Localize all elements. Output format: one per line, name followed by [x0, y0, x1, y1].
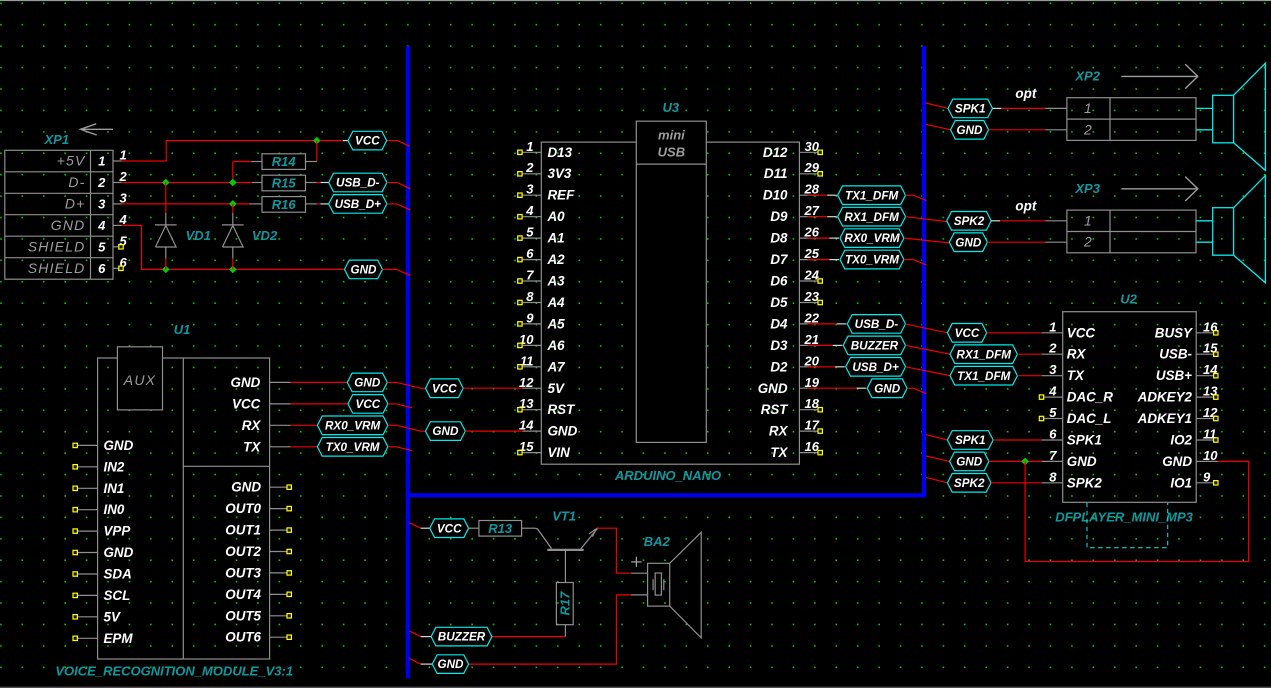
wire: TX1_DFM label to U2 pin 3 — [1017, 375, 1041, 377]
net label SPK2 (U2 pin 8) — [926, 477, 947, 482]
connector XP1 orientation arrow (left) — [81, 124, 97, 135]
svg-text:1: 1 — [1084, 212, 1093, 228]
node: junction D- / R14 — [229, 179, 237, 187]
svg-text:VT1: VT1 — [552, 509, 576, 524]
resistor R15 — [262, 175, 306, 191]
svg-text:ARDUINO_NANO: ARDUINO_NANO — [614, 468, 721, 483]
wire: bus entry of VCC into left bus — [398, 141, 410, 147]
svg-text:9: 9 — [1203, 469, 1211, 484]
svg-text:A5: A5 — [547, 316, 566, 331]
resistor R16 pin stubs — [250, 203, 263, 205]
svg-text:OUT6: OUT6 — [225, 630, 261, 645]
net label TX0_VRM (U3 pin 25) with bus entry — [808, 259, 830, 261]
wire: R15 to USB_D- label (white tail) — [317, 182, 321, 184]
IC U1 VOICE_RECOGNITION_MODULE body — [98, 358, 270, 659]
IC U3 right pin stubs — [799, 152, 817, 452]
svg-text:3: 3 — [98, 197, 106, 212]
svg-text:D-: D- — [68, 174, 85, 190]
svg-text:U2: U2 — [1120, 291, 1137, 306]
svg-text:GND: GND — [51, 217, 86, 233]
svg-text:SPK2: SPK2 — [954, 477, 985, 490]
net label GND (XP3 pin 2) — [949, 233, 987, 252]
net label SPK1 (U2 pin 6) — [926, 435, 947, 440]
svg-text:IN2: IN2 — [104, 459, 125, 474]
svg-text:GND: GND — [351, 264, 378, 277]
connector XP1 external pin numbers 1-6 — [119, 148, 128, 270]
wire: GND label across left bus to U3 VCC label — [387, 381, 396, 383]
svg-text:USB_D-: USB_D- — [336, 177, 380, 190]
IC U3 left pin stubs — [523, 152, 542, 452]
net label VCC (U3 pin 12) — [426, 379, 464, 398]
svg-text:USB: USB — [658, 145, 685, 160]
svg-text:OUT1: OUT1 — [225, 523, 261, 538]
svg-text:GND: GND — [354, 377, 381, 390]
svg-text:VIN: VIN — [548, 445, 571, 460]
svg-text:GND: GND — [1162, 454, 1192, 469]
node: junction D- / VD1 — [162, 179, 170, 187]
svg-text:D11: D11 — [764, 166, 788, 181]
svg-text:VCC: VCC — [356, 398, 381, 411]
svg-text:SCL: SCL — [104, 588, 131, 603]
svg-text:24: 24 — [804, 268, 820, 283]
svg-text:28: 28 — [804, 182, 820, 197]
net label RX0_VRM (U3 pin 26) with wire across bus to XP3 GND label — [808, 237, 830, 239]
node: junction VCC / R14 — [313, 137, 321, 145]
node: junction GND loop / U2 pin 7 — [1021, 458, 1029, 466]
svg-text:A0: A0 — [547, 209, 566, 224]
IC U2 unconnected pins DAC_R DAC_L markers — [1039, 395, 1043, 399]
svg-text:A4: A4 — [547, 295, 566, 310]
net label SPK2 (XP3 pin 1) — [947, 212, 992, 231]
net label VCC (U1) — [348, 395, 388, 414]
svg-text:4: 4 — [97, 218, 106, 233]
svg-text:GND: GND — [955, 236, 982, 249]
svg-text:19: 19 — [805, 375, 820, 390]
svg-text:29: 29 — [804, 160, 820, 175]
net label RX1_DFM (U2 pin 2) — [950, 345, 1017, 364]
net label USB_D- (U3 pin 22) with wire across bus to U2 VCC label — [808, 323, 837, 325]
net label USB_D+ — [329, 195, 387, 214]
IC U2 left pin names and numbers — [1048, 319, 1113, 490]
svg-text:8: 8 — [1049, 469, 1057, 484]
svg-text:1: 1 — [120, 148, 127, 163]
svg-text:RX1_DFM: RX1_DFM — [844, 211, 899, 224]
svg-text:2: 2 — [119, 169, 128, 184]
IC U2 right pin names and numbers — [1137, 319, 1219, 490]
svg-text:RX1_DFM: RX1_DFM — [956, 348, 1011, 361]
wire: GND label to U2 pin 7 — [989, 460, 1042, 462]
svg-text:TX0_VRM: TX0_VRM — [845, 254, 899, 267]
IC U3 unconnected left pin markers — [518, 150, 522, 455]
IC U3 mini USB sub-block — [636, 121, 706, 442]
svg-text:VCC: VCC — [232, 396, 261, 411]
svg-text:4: 4 — [1048, 384, 1057, 399]
diode VD1 (D- to GND) — [165, 183, 167, 214]
connector XP2 pin stubs — [1046, 107, 1067, 109]
wire: BA2 + pin stub — [631, 572, 648, 574]
svg-text:IO1: IO1 — [1170, 475, 1192, 490]
IC U1 right bottom pins (unconnected outputs) — [225, 480, 291, 645]
svg-text:REF: REF — [548, 188, 576, 203]
net label VCC (XP1) — [348, 131, 387, 150]
node: junction D+ / VD2 — [229, 200, 237, 208]
IC U3 left pin names and numbers — [519, 139, 578, 460]
IC U2 DFPLAYER body — [1063, 312, 1197, 503]
wire: bus entry of USB_D- into left bus — [387, 182, 397, 184]
svg-text:2: 2 — [1083, 121, 1093, 137]
svg-text:D13: D13 — [548, 145, 573, 160]
net label RX0_VRM (U1) — [317, 416, 388, 435]
wire: SPK1 label to U2 pin 6 — [993, 439, 1041, 441]
svg-text:SPK2: SPK2 — [954, 215, 985, 228]
svg-text:SPK2: SPK2 — [1067, 475, 1103, 490]
wire: R14 right terminal to VCC line — [316, 141, 318, 162]
svg-text:8: 8 — [526, 289, 534, 304]
svg-text:USB+: USB+ — [1156, 368, 1192, 383]
svg-text:GND: GND — [432, 425, 459, 438]
svg-text:AUX: AUX — [123, 372, 156, 388]
svg-text:22: 22 — [804, 310, 820, 325]
net label USB_D+ (U3 pin 20) with wire across bus to U2 TX1_DFM label — [808, 366, 836, 368]
net label GND (BA2) — [410, 659, 421, 664]
svg-text:RX: RX — [242, 418, 262, 433]
wire: U1 VCC pin to VCC label — [291, 403, 348, 405]
IC U1 left pins (unconnected inputs) — [73, 438, 134, 646]
wire: VT1 emitter to BA2 + terminal — [597, 528, 631, 573]
wire: U1 RX pin to RX0_VRM label — [291, 424, 318, 426]
wire: R17 bottom stub — [564, 625, 566, 637]
connector XP3 orientation arrow (right) — [1121, 188, 1197, 190]
wire: GND to BA2 - terminal — [469, 595, 631, 664]
svg-text:SHIELD: SHIELD — [28, 260, 86, 276]
wire: bus entry of TX0_VRM into left bus — [388, 446, 397, 448]
svg-text:9: 9 — [526, 310, 534, 325]
wire: XP1 pin4 (GND) down and right to GND label — [122, 225, 345, 269]
svg-text:mini: mini — [658, 128, 685, 143]
svg-text:1: 1 — [1084, 100, 1093, 116]
connector XP2 orientation arrow (right) — [1121, 75, 1197, 77]
svg-text:VD1: VD1 — [186, 228, 211, 243]
svg-text:GND: GND — [231, 480, 261, 495]
resistor R15 pin stubs — [252, 182, 262, 184]
svg-text:OUT0: OUT0 — [225, 501, 261, 516]
net label GND (U2 pin 7) — [926, 456, 950, 461]
bus: vertical blue bus right of U3 — [922, 46, 926, 495]
IC U3 unconnected right pin markers — [818, 150, 822, 455]
svg-text:OUT4: OUT4 — [225, 587, 261, 602]
svg-text:R14: R14 — [272, 154, 297, 169]
svg-text:IN1: IN1 — [104, 481, 125, 496]
wire: SPK2 label to U2 pin 8 — [991, 482, 1042, 484]
wire: bus entry of VCC (U1) into left bus — [388, 403, 397, 405]
IC U2 right pin stubs — [1196, 333, 1217, 483]
resistor R13 — [479, 521, 522, 537]
svg-text:5V: 5V — [104, 609, 121, 624]
svg-text:SPK1: SPK1 — [1067, 433, 1102, 448]
svg-text:TX: TX — [770, 445, 788, 460]
svg-text:R17: R17 — [557, 591, 572, 616]
wire: R14 left terminal down to D- net — [233, 161, 252, 163]
svg-text:D12: D12 — [763, 145, 788, 160]
svg-text:D3: D3 — [770, 338, 788, 353]
node: junction GND / VD2 anode — [229, 266, 237, 274]
IC U3 ARDUINO_NANO body — [541, 142, 799, 464]
diode VD2 (D+ to GND) — [232, 204, 234, 213]
svg-text:VOICE_RECOGNITION_MODULE_V3:1: VOICE_RECOGNITION_MODULE_V3:1 — [55, 664, 293, 679]
svg-text:BUZZER: BUZZER — [438, 631, 486, 644]
wire: XP1 pin3 (D+) to R16 — [122, 203, 250, 205]
svg-text:OUT2: OUT2 — [225, 544, 261, 559]
svg-text:TX: TX — [243, 439, 261, 454]
net label BUZZER (U3 pin 21) with wire across bus to U2 RX1_DFM label — [808, 344, 833, 346]
svg-text:VD2: VD2 — [252, 228, 278, 243]
svg-text:IO2: IO2 — [1170, 433, 1192, 448]
net label GND (U3 pin 19) with bus entry — [808, 387, 857, 389]
connector XP3 table outline — [1067, 210, 1196, 253]
net label USB_D- — [329, 173, 387, 192]
net label TX1_DFM (U3 pin 28) with bus entry — [808, 194, 828, 196]
svg-text:SDA: SDA — [104, 567, 132, 582]
net label VCC (R13) — [410, 523, 421, 528]
net label VCC (U2 pin 1) — [947, 324, 986, 343]
svg-text:26: 26 — [804, 225, 820, 240]
svg-text:10: 10 — [1203, 448, 1218, 463]
svg-text:USB_D+: USB_D+ — [852, 361, 899, 374]
net label TX1_DFM (U2 pin 3) — [950, 366, 1017, 385]
IC U1 AUX sub-block — [117, 347, 162, 410]
wire: BA2 - pin stub — [631, 594, 648, 596]
IC U2 left pin stubs — [1042, 333, 1063, 483]
svg-text:USB_D+: USB_D+ — [335, 198, 382, 211]
svg-text:D9: D9 — [770, 209, 788, 224]
wire: bus entry of USB_D+ into left bus — [387, 203, 397, 205]
buzzer BA2 horn — [670, 532, 702, 638]
svg-text:GND: GND — [438, 658, 465, 671]
svg-text:VCC: VCC — [355, 135, 380, 148]
svg-text:20: 20 — [804, 353, 820, 368]
svg-text:GND: GND — [104, 438, 134, 453]
wire: BUZZER label to R17 — [492, 636, 566, 638]
svg-text:5: 5 — [1049, 405, 1057, 420]
svg-text:VCC: VCC — [432, 382, 457, 395]
wire: U1 GND pin to GND label — [291, 381, 348, 383]
IC U1 right top pin stubs — [270, 382, 291, 446]
net label GND (XP2 pin 2) — [926, 124, 951, 129]
svg-text:DAC_L: DAC_L — [1067, 411, 1112, 426]
svg-text:7: 7 — [1049, 448, 1057, 463]
resistor R16 — [262, 197, 306, 213]
svg-text:R16: R16 — [272, 197, 297, 212]
svg-text:D2: D2 — [770, 359, 788, 374]
svg-text:4: 4 — [525, 203, 534, 218]
svg-text:GND: GND — [548, 424, 578, 439]
svg-text:RST: RST — [548, 402, 577, 417]
svg-text:D4: D4 — [770, 316, 788, 331]
svg-text:12: 12 — [519, 375, 534, 390]
svg-text:A3: A3 — [547, 274, 566, 289]
transistor VT1 (NPN) — [535, 528, 551, 548]
svg-text:DAC_R: DAC_R — [1067, 390, 1113, 405]
svg-text:GND: GND — [758, 381, 788, 396]
net label GND (U1) — [347, 373, 387, 392]
svg-text:GND: GND — [874, 382, 901, 395]
connector XP1 pin stubs — [113, 161, 122, 268]
connector XP1 unconnected pin 6 marker — [119, 266, 123, 270]
svg-text:D8: D8 — [770, 231, 788, 246]
svg-text:TX1_DFM: TX1_DFM — [957, 370, 1011, 383]
svg-text:D6: D6 — [770, 274, 788, 289]
resistor R17 (vertical) — [556, 583, 573, 625]
svg-text:opt: opt — [1015, 198, 1036, 213]
svg-text:opt: opt — [1015, 86, 1036, 101]
svg-text:R15: R15 — [272, 176, 297, 191]
svg-text:2: 2 — [1083, 234, 1093, 250]
svg-text:3: 3 — [120, 190, 128, 205]
wire: XP1 pin2 (D-) to R15 — [122, 182, 252, 184]
connector XP1 table outline — [5, 150, 113, 279]
wire: VCC label to U3 pin 12 — [463, 387, 522, 389]
svg-text:ADKEY1: ADKEY1 — [1137, 411, 1192, 426]
net label GND (XP1) — [345, 260, 383, 279]
svg-text:6: 6 — [98, 261, 106, 276]
resistor R14 — [262, 154, 306, 170]
svg-text:3: 3 — [526, 182, 534, 197]
wire: XP1 pin1 (+5V) to VCC net line — [122, 141, 344, 161]
svg-text:6: 6 — [1049, 427, 1057, 442]
svg-text:2: 2 — [1048, 341, 1057, 356]
svg-text:D+: D+ — [65, 195, 86, 211]
IC U1 right top pin names — [231, 375, 262, 454]
svg-text:TX1_DFM: TX1_DFM — [845, 189, 899, 202]
svg-text:U1: U1 — [174, 322, 191, 337]
svg-text:SPK1: SPK1 — [955, 434, 986, 447]
IC U2 unconnected right pin markers — [1214, 331, 1218, 485]
IC U2 hidden-attribute dashed box — [1087, 503, 1168, 548]
svg-text:TX: TX — [1067, 368, 1085, 383]
svg-text:2: 2 — [97, 175, 106, 190]
svg-text:RX0_VRM: RX0_VRM — [325, 419, 380, 432]
wire: VCC label to U2 pin 1 — [987, 332, 1042, 334]
svg-text:3V3: 3V3 — [548, 166, 572, 181]
svg-text:7: 7 — [526, 268, 534, 283]
svg-text:+5V: +5V — [57, 153, 86, 169]
connector XP2 table outline — [1067, 98, 1196, 141]
svg-text:OUT5: OUT5 — [225, 608, 261, 623]
svg-text:GND: GND — [957, 124, 984, 137]
svg-text:XP2: XP2 — [1074, 69, 1100, 84]
resistor R14 pin stubs — [252, 161, 263, 163]
bus: vertical blue bus left of U3 — [406, 46, 410, 678]
svg-text:D7: D7 — [770, 252, 788, 267]
svg-text:VCC: VCC — [955, 327, 980, 340]
svg-text:25: 25 — [804, 246, 820, 261]
svg-text:RX: RX — [1067, 347, 1087, 362]
net label RX1_DFM (U3 pin 27) with wire across bus to SPK2 label — [808, 216, 828, 218]
node: junction GND / VD1 anode — [162, 266, 170, 274]
connector XP3 pin stubs — [1046, 220, 1067, 222]
svg-text:2: 2 — [525, 160, 534, 175]
svg-text:USB-: USB- — [1159, 347, 1192, 362]
net label SPK1 (XP2 pin 1) — [926, 103, 948, 108]
connector XP1 unconnected pin 5 marker — [119, 245, 123, 249]
svg-text:A6: A6 — [547, 338, 566, 353]
svg-text:R13: R13 — [488, 521, 513, 536]
svg-text:IN0: IN0 — [104, 502, 125, 517]
svg-text:SHIELD: SHIELD — [28, 238, 86, 254]
svg-text:D10: D10 — [763, 188, 788, 203]
svg-text:U3: U3 — [663, 100, 680, 115]
svg-text:23: 23 — [804, 289, 820, 304]
svg-text:5: 5 — [526, 225, 534, 240]
svg-text:5V: 5V — [548, 381, 565, 396]
svg-text:ADKEY2: ADKEY2 — [1137, 390, 1193, 405]
loudspeaker symbol at XP2 — [1196, 107, 1213, 109]
svg-text:GND: GND — [1067, 454, 1097, 469]
svg-text:TX0_VRM: TX0_VRM — [326, 441, 380, 454]
svg-text:21: 21 — [804, 332, 819, 347]
net label BUZZER (base drive) — [410, 631, 421, 636]
svg-text:RX: RX — [769, 424, 789, 439]
svg-text:DFPLAYER_MINI_MP3: DFPLAYER_MINI_MP3 — [1055, 510, 1193, 525]
bus: horizontal blue bus below U3 — [406, 493, 926, 497]
svg-text:XP3: XP3 — [1074, 181, 1100, 196]
wire: GND label to U3 pin 14 — [465, 430, 522, 432]
svg-text:USB_D-: USB_D- — [855, 318, 899, 331]
svg-text:VCC: VCC — [437, 522, 462, 535]
loudspeaker symbol at XP3 — [1196, 220, 1213, 222]
svg-text:A1: A1 — [547, 231, 565, 246]
connector XP1 pin function names — [28, 153, 106, 276]
svg-text:OUT3: OUT3 — [225, 565, 261, 580]
svg-text:3: 3 — [1049, 362, 1057, 377]
svg-text:GND: GND — [104, 545, 134, 560]
svg-text:GND: GND — [231, 375, 261, 390]
wire: R16 to USB_D+ label (white tail) — [317, 203, 321, 205]
svg-text:RST: RST — [761, 402, 790, 417]
svg-text:A7: A7 — [547, 359, 566, 374]
net label GND (U3 pin 14) — [426, 422, 466, 441]
buzzer BA2 polarity + sign — [631, 561, 641, 563]
wire: RX1_DFM label to U2 pin 2 — [1017, 353, 1041, 355]
svg-text:BUZZER: BUZZER — [851, 340, 899, 353]
svg-text:VPP: VPP — [104, 524, 131, 539]
svg-text:XP1: XP1 — [44, 132, 70, 147]
svg-text:RX0_VRM: RX0_VRM — [844, 232, 899, 245]
wire: U1 TX pin to TX0_VRM label — [291, 446, 318, 448]
wire: bus entry of GND into left bus — [383, 268, 397, 270]
svg-text:1: 1 — [1049, 319, 1056, 334]
svg-text:SPK1: SPK1 — [955, 103, 986, 116]
svg-text:EPM: EPM — [104, 631, 134, 646]
svg-text:5: 5 — [98, 239, 106, 254]
svg-text:6: 6 — [526, 246, 534, 261]
wire: RX0_VRM label across left bus to U3 GND label — [388, 424, 397, 426]
svg-text:BA2: BA2 — [644, 534, 671, 549]
svg-text:A2: A2 — [547, 252, 566, 267]
svg-text:VCC: VCC — [1067, 325, 1096, 340]
svg-text:4: 4 — [119, 212, 128, 227]
IC U3 right pin names and numbers — [758, 139, 820, 460]
resistor R13 pin stubs — [469, 527, 479, 529]
svg-text:27: 27 — [804, 203, 820, 218]
buzzer BA2 body — [648, 563, 670, 606]
svg-text:1: 1 — [98, 154, 105, 169]
net label TX0_VRM (U1) — [317, 438, 388, 457]
svg-text:GND: GND — [956, 456, 983, 469]
svg-text:14: 14 — [519, 418, 534, 433]
svg-text:D5: D5 — [770, 295, 788, 310]
wire: U2 pin 10 GND loop around chip — [1025, 461, 1249, 561]
